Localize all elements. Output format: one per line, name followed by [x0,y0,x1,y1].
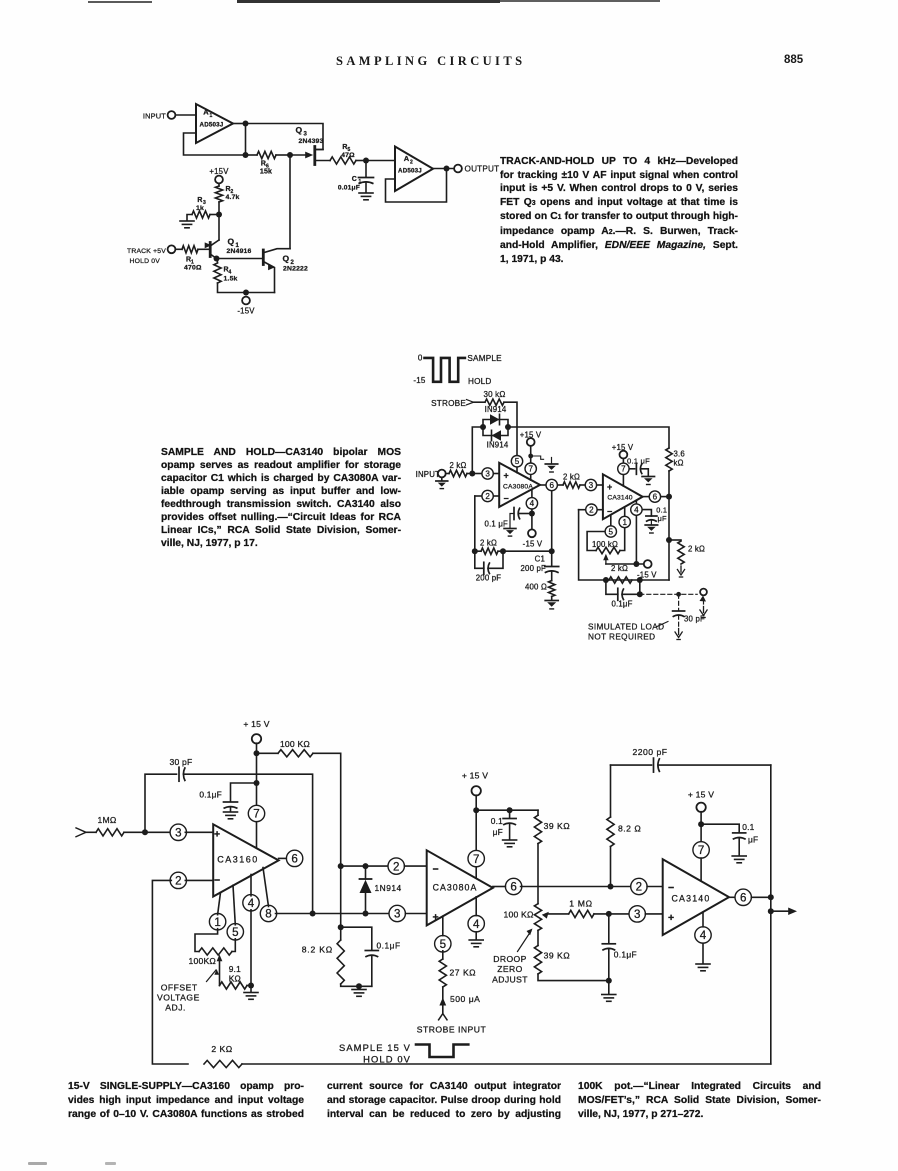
svg-text:7: 7 [253,808,259,821]
pin 6 CA3140 bottom [735,889,751,905]
caption: track-and-hold paragraph [500,155,738,266]
pin 3 CA3080A bottom [389,905,427,921]
wire feedback row CA3140 [579,510,669,580]
capacitor 0.1uF CA3140 feedback [606,580,640,609]
node +15V CA3140 [698,821,704,827]
wire 2k to pin3 CA3140 [580,484,584,486]
wire 2200pF down to output [770,765,772,1064]
svg-text:500 μA: 500 μA [450,994,480,1004]
current source arrow 500uA [439,987,480,1013]
resistor 1 megohm input [96,815,124,836]
wire 30k to pin 5 [504,402,517,455]
svg-text:A: A [404,154,410,163]
ground at CA3140 pin7 cap [642,476,654,478]
resistor 3.6 kilohm [666,448,685,471]
node input bottom [142,829,148,835]
node A2 output [444,166,450,172]
svg-text:TRACK +5V: TRACK +5V [127,248,166,255]
svg-text:1: 1 [214,916,220,929]
node 8.2K tap [338,924,344,930]
pin 4 CA3080A [526,490,537,509]
svg-text:1MΩ: 1MΩ [98,815,117,825]
svg-text:HOLD: HOLD [468,377,492,386]
resistor R4 1.5k [214,259,238,284]
wire A1 feedback loop [184,133,246,155]
ground arrow below 30pF [678,629,680,635]
resistor R2 4.7k [215,186,239,202]
resistor 2 kilohm CA3140 feedback [609,564,632,583]
capacitor C1 200 pF [521,555,559,581]
resistor 39 kilohm lower [534,930,570,974]
svg-text:8.2 KΩ: 8.2 KΩ [302,945,333,955]
svg-text:+ 15 V: + 15 V [243,719,269,729]
svg-text:8: 8 [265,908,271,921]
svg-text:STROBE: STROBE [431,399,466,408]
node simulated load [676,592,681,597]
svg-text:+ 15 V: + 15 V [688,790,714,800]
svg-text:-15: -15 [413,376,426,385]
svg-text:4: 4 [634,506,639,515]
svg-text:Q: Q [283,254,290,264]
supply +15V CA3080A [462,771,488,796]
node output middle [666,494,672,500]
op-amp CA3160 [213,824,278,896]
svg-text:400 Ω: 400 Ω [525,583,547,592]
pin 6 CA3140 middle [649,491,660,502]
wire pin2 to bottom feedback [152,880,188,1064]
svg-text:C1: C1 [535,555,545,564]
svg-text:0.1μF: 0.1μF [377,941,401,951]
node A1 output [243,121,249,127]
wire 400 ohm to ground [551,597,553,601]
diode D2 1N914 [483,427,509,450]
svg-text:−: − [504,494,509,504]
ground at R3 [180,220,194,222]
wire terminal to R1 [175,248,182,250]
ground at CA3140 pin4 cap [645,524,657,526]
svg-text:AD503J: AD503J [200,122,224,129]
wire +15V rail right [476,809,538,811]
node -15V rail [243,290,249,296]
svg-text:4: 4 [530,499,535,508]
node +15V rail CA3080A [473,807,479,813]
wire pin2 row CA3080A [341,865,390,867]
ground arrow at load terminal [703,607,705,613]
svg-text:0.1 μF: 0.1 μF [627,457,650,466]
wire CA3140 output [643,496,649,498]
svg-text:4: 4 [700,929,707,942]
wire pin3 to opamp [494,473,499,475]
pin 7 CA3080A bottom [468,850,484,877]
strobe input label [431,399,473,408]
node input [469,471,475,477]
dashed wire simulated load [640,593,697,595]
wire pin6 to 2k [558,484,563,486]
op-amp A1 AD503J [196,104,233,143]
capacitor 0.1uF at pin4 [485,508,532,529]
resistor 2 kilohm load [669,540,705,564]
svg-text:2: 2 [410,160,413,166]
svg-text:SIMULATED LOAD: SIMULATED LOAD [588,623,664,632]
node diode left [480,424,486,430]
svg-text:0.1μF: 0.1μF [611,600,632,609]
svg-text:-15V: -15V [237,307,255,316]
sample-hold waveform bottom [339,1042,468,1065]
svg-text:15k: 15k [260,169,272,176]
svg-text:6: 6 [653,493,658,502]
resistor 400 ohm [525,581,555,597]
svg-text:2N4916: 2N4916 [227,248,252,255]
strobe waveform symbol [413,354,502,387]
resistor 100 kilohm [257,739,314,757]
svg-text:−: − [214,875,220,887]
capacitor 200 pF feedback [475,551,503,582]
svg-text:+: + [504,471,509,481]
output arrow bottom circuit [771,907,797,914]
pin 5 CA3080A bottom [435,916,451,952]
capacitor 0.1uF CA3140 bottom [701,822,758,856]
resistor 2 kilohm input [449,461,467,477]
pin 2 CA3160 [170,872,213,888]
node pin8 30pF [310,911,316,917]
capacitor 0.1uF at CA3140 pin7 [627,457,650,477]
ground CA3160 [244,992,258,994]
page top scan artifacts [88,1,152,3]
svg-text:7: 7 [621,465,626,474]
diode D1 1N914 [483,405,508,427]
svg-text:4: 4 [248,897,255,910]
ground below 8.2K [352,986,366,996]
svg-text:2: 2 [175,875,181,888]
pin 3 CA3140 bottom [629,906,663,922]
wire +15V down [256,743,258,813]
svg-text:7: 7 [473,853,479,866]
svg-text:6: 6 [291,853,297,866]
pin 3 CA3080A [482,468,493,479]
svg-text:2 kΩ: 2 kΩ [611,564,628,573]
ground at CA3160 bypass [224,811,238,813]
pin 7 CA3160 [248,805,264,847]
node Q1 collector [214,256,220,262]
svg-text:2 KΩ: 2 KΩ [211,1044,232,1054]
node simulated load tap [637,591,643,597]
wire pin2 down [474,496,476,551]
wire 100K rail down [340,866,342,940]
node feedback storage [549,548,555,554]
resistor 8.2 kilohm [302,940,345,984]
svg-text:2 kΩ: 2 kΩ [563,473,580,482]
svg-text:Q: Q [228,237,235,247]
ground below pin4 CA3080A [469,939,483,941]
node output rail arrow [768,908,774,914]
ground CA3140 bypass [732,855,746,857]
svg-text:3: 3 [589,481,594,490]
transistor Q1 2N4916 PNP [205,237,252,259]
resistor 2 kilohm interstage [563,473,580,489]
svg-text:INPUT: INPUT [143,112,166,121]
simulated load label [588,622,668,642]
svg-text:CA3140: CA3140 [607,495,632,502]
svg-text:0.01μF: 0.01μF [338,185,360,192]
wire pin6 output [540,484,545,486]
svg-text:μF: μF [493,827,503,837]
pin 7 CA3140 bottom [693,842,709,881]
pin 2 CA3080A bottom [388,858,427,874]
svg-text:100 kΩ: 100 kΩ [592,540,618,549]
wire input to A1 [175,114,196,116]
wire R3 to ground [187,215,192,221]
supply +15V top [209,167,229,183]
resistor R3 1k [192,197,219,218]
svg-text:27 KΩ: 27 KΩ [450,968,477,978]
ground at input [436,477,448,488]
ground below C1 [359,192,373,194]
svg-text:0.1: 0.1 [491,816,503,826]
pin 4 CA3140 bottom [695,912,711,963]
svg-text:−: − [433,864,439,876]
pin 4 CA3160 [243,875,259,912]
svg-text:-15 V: -15 V [523,540,543,549]
svg-text:STROBE INPUT: STROBE INPUT [417,1025,487,1035]
svg-text:30 pF: 30 pF [684,615,705,624]
op-amp CA3140 bottom [663,859,729,935]
svg-text:1N914: 1N914 [375,883,402,893]
capacitor 0.1uF CA3160 [199,783,256,812]
offset potentiometer 100K [189,929,236,986]
svg-text:1k: 1k [196,205,204,212]
svg-text:2: 2 [636,881,642,894]
wire hook [531,456,544,459]
transistor Q2 2N2222 NPN [263,249,308,293]
svg-text:ADJUST: ADJUST [492,975,528,985]
node pin2 feedback [472,548,478,554]
capacitor 2200 pF [611,747,771,772]
capacitor 30 pF feedback [145,757,313,914]
node pin4 bypass [529,511,535,517]
svg-text:μF: μF [748,835,758,845]
resistor 2 kilohm bottom feedback [204,1044,242,1068]
svg-text:IN914: IN914 [487,441,509,450]
svg-text:3: 3 [394,908,400,921]
wire diode rail to 3.6k [508,427,669,448]
pin 7 CA3140 [618,463,629,486]
capacitor 0.1uF at CA3140 pin4 [643,506,667,525]
caption: bottom three columns [68,1080,304,1122]
pin 5 CA3160 [227,885,243,940]
supply +15V at CA3140 [612,443,634,459]
wire +15V down CA3140 [700,812,702,844]
svg-text:3: 3 [485,469,490,478]
resistor 30 kilohm strobe [483,390,505,405]
svg-text:1: 1 [622,518,627,527]
pin 6 CA3080A [546,479,557,490]
wire input node to diodes [472,427,483,474]
capacitor 0.1uF CA3080A [491,810,516,839]
wire pin3 to opamp2 [597,484,603,486]
svg-text:VOLTAGE: VOLTAGE [157,993,200,1003]
ground below rail [602,981,616,1002]
wire gate node to Q3 [290,154,309,156]
svg-text:470Ω: 470Ω [184,265,202,272]
svg-text:−: − [668,882,674,894]
node 2k load tap [666,537,672,543]
diode 1N914 bottom circuit [360,866,402,913]
svg-text:5: 5 [609,527,614,536]
svg-text:NOT REQUIRED: NOT REQUIRED [588,633,655,642]
op-amp CA3080A [499,463,540,507]
wire CA3140 output bottom [729,896,735,898]
svg-text:HOLD 0V: HOLD 0V [363,1054,411,1065]
node bypass CA3160 [254,780,260,786]
track-hold control terminal [127,245,175,265]
resistor 1 megohm droop [569,899,594,918]
svg-text:SAMPLE 15 V: SAMPLE 15 V [339,1042,411,1053]
svg-text:−: − [607,507,612,517]
svg-text:1: 1 [210,113,213,119]
wire R4 to -15V rail [218,283,247,293]
page bottom scan artifacts [28,1162,47,1165]
wire A2 feedback loop [386,169,447,203]
svg-text:3: 3 [304,132,308,138]
pin 3 CA3140 [585,479,596,490]
svg-text:3: 3 [634,908,640,921]
wire R1 to Q1 base [198,248,210,250]
capacitor 0.1uF parallel 8.2K [341,927,401,986]
svg-text:2: 2 [485,492,490,501]
svg-text:9.1: 9.1 [229,964,241,974]
terminal -15V CA3140 [637,560,657,579]
svg-text:7: 7 [698,844,704,857]
svg-text:30 kΩ: 30 kΩ [483,390,505,399]
wire node to A2 [366,160,395,162]
node pin7 hook [528,454,533,459]
svg-text:2N4393: 2N4393 [299,138,324,145]
svg-text:CA3140: CA3140 [672,894,711,904]
wire feedback to storage node [498,550,552,552]
pin 3 CA3160 [170,824,213,840]
svg-text:OUTPUT: OUTPUT [465,165,500,174]
svg-text:C: C [352,176,357,183]
node diode right [505,424,511,430]
pin 4 CA3140 [631,500,642,515]
wire output down [668,497,670,580]
wire pin6 to output node [661,496,669,498]
node feedback cap right2 [637,577,643,583]
svg-text:6: 6 [740,891,746,904]
wire pin4 down to -15V row [635,516,637,564]
resistor 9.1 kilohm [220,964,248,989]
svg-text:8.2 Ω: 8.2 Ω [618,824,641,834]
wire R2 to node [218,202,220,215]
node diode top [338,863,344,869]
wire pin6 down to storage node [551,491,553,566]
node +15V 100K [254,750,260,756]
wire 100K to 1N914 rail [313,753,341,866]
wire bottom feedback rail [242,1063,771,1065]
svg-text:6: 6 [549,481,554,490]
wire +15V to R2 [218,183,220,186]
wire top rail to Q3 drain [246,124,324,150]
ground at CA3080A bypass [503,839,517,841]
svg-text:ZERO: ZERO [497,964,522,974]
wire 39K lower to ground rail [538,974,609,981]
op-amp CA3140 middle [603,474,643,519]
wire 3.6k to output node [668,471,670,497]
svg-text:2 kΩ: 2 kΩ [688,545,705,554]
wire 9.1K to ground node [247,985,251,987]
ground arrow below 2k load [680,566,682,572]
node feedback cap left [603,577,609,583]
svg-text:INPUT: INPUT [416,470,440,479]
node R2 R3 [216,212,222,218]
svg-text:CA3080A: CA3080A [433,883,478,893]
track-and-hold circuit: input terminal [143,111,176,120]
node diode anode [363,863,369,869]
svg-text:IN914: IN914 [485,405,507,414]
resistor R5 47 ohm [330,144,356,164]
wire input to 2k [446,473,449,475]
potentiometer 100 kilohm offset [587,528,625,564]
svg-text:+ 15 V: + 15 V [462,771,488,781]
node output rail top [768,894,774,900]
svg-text:0.1: 0.1 [742,822,754,832]
svg-text:SAMPLE: SAMPLE [467,354,502,363]
svg-text:4: 4 [473,918,480,931]
resistor 39 kilohm upper [534,810,570,843]
svg-text:Q: Q [296,125,303,135]
wire pin8 row [276,913,391,915]
svg-text:100 KΩ: 100 KΩ [504,910,534,920]
svg-text:+15V: +15V [209,167,229,176]
node feedback cap right [500,548,506,554]
droop potentiometer 100 kilohm [504,904,569,931]
strobe input terminal arrow [417,1014,487,1035]
running head [336,54,525,69]
wire rail to Q2 emitter [246,292,275,294]
pin 2 CA3140 bottom [631,878,663,894]
svg-text:5: 5 [440,938,446,951]
svg-text:+: + [668,912,674,924]
node 8.2 ohm bottom [608,884,614,890]
wire A1 output [233,123,246,125]
wire R5 to C1 node [356,160,366,162]
wire 2k to pin3 [467,473,481,475]
wire pin6 row to CA3140 [521,886,633,888]
svg-text:0.1μF: 0.1μF [199,790,222,800]
svg-text:3.6: 3.6 [674,450,685,459]
node pin8 diode [363,911,369,917]
offset label [157,969,219,1012]
node pin3 CA3140 bottom [606,911,612,917]
svg-text:2N2222: 2N2222 [283,266,308,273]
wire +15V down CA3080A [475,795,477,852]
svg-text:CA3160: CA3160 [217,855,259,865]
pin 7 CA3080A [525,463,536,480]
ground at pin4 cap [504,528,516,530]
wire node to Q1 emitter [218,215,220,241]
wire node to lower rail [245,124,247,156]
wire 39K to droop pot [537,844,539,904]
svg-text:0.1 μF: 0.1 μF [485,520,508,529]
node lower rail [243,152,249,158]
svg-text:39 KΩ: 39 KΩ [544,951,571,961]
svg-text:R: R [197,197,202,204]
wire Q2 collector to gate node [289,155,291,249]
node pin4 ground [248,983,254,989]
transistor Q3 2N4393 JFET [296,125,331,165]
svg-text:HOLD 0V: HOLD 0V [130,258,161,265]
wire to R6 [246,154,258,156]
